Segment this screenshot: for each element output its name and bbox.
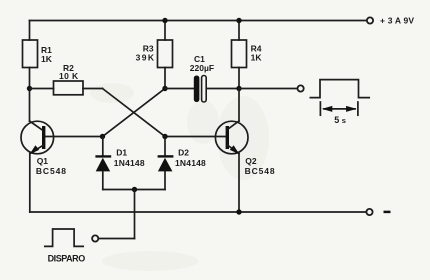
wire R4 bottom lead xyxy=(238,68,240,89)
wire output line xyxy=(239,88,297,90)
svg-text:1K: 1K xyxy=(251,52,263,62)
diode D1 xyxy=(95,137,111,190)
svg-text:1K: 1K xyxy=(41,54,53,64)
dimension tick left xyxy=(319,102,321,115)
diode D2 xyxy=(158,137,174,190)
node junction Q2 base/D2/diagonal xyxy=(162,134,167,139)
wire Q1 base lead xyxy=(45,136,103,138)
wire trigger bus between diode anodes xyxy=(103,189,165,191)
svg-text:5: 5 xyxy=(334,115,339,125)
node junction R4/C1/Q2 collector/output xyxy=(236,86,241,91)
wire R4 top lead xyxy=(238,21,240,41)
label negative terminal xyxy=(384,211,391,214)
terminal output xyxy=(298,85,304,91)
svg-text:Q2: Q2 xyxy=(245,156,257,166)
svg-text:10 K: 10 K xyxy=(59,71,79,81)
svg-text:D1: D1 xyxy=(116,148,127,158)
node junction trigger bus xyxy=(132,187,137,192)
node junction R4 top rail xyxy=(236,18,241,23)
terminal negative supply xyxy=(366,209,372,215)
capacitor C1 xyxy=(194,76,206,103)
wire node to C1 left plate xyxy=(165,88,194,90)
wire R2 left lead xyxy=(30,88,54,90)
wire bottom rail xyxy=(30,211,367,213)
wire R3 top lead xyxy=(164,21,166,41)
dimension double arrow xyxy=(322,106,357,112)
wire trigger vertical xyxy=(134,190,136,239)
output pulse waveform symbol xyxy=(310,80,369,98)
resistor R1 xyxy=(23,40,38,68)
terminal trigger input xyxy=(92,235,98,241)
svg-text:BC548: BC548 xyxy=(36,166,67,176)
node junction R3/C1/diagonal xyxy=(162,86,167,91)
node junction Q2 emitter bottom rail xyxy=(236,209,241,214)
node junction Q1 base/D1/diagonal xyxy=(100,134,105,139)
wire cross-coupling diagonal Q1 base to R3/C1 node xyxy=(103,89,166,137)
wire R1 top lead xyxy=(29,21,31,41)
resistor R4 xyxy=(232,40,247,68)
svg-text:1N4148: 1N4148 xyxy=(175,158,206,168)
svg-text:BC548: BC548 xyxy=(245,166,276,176)
svg-text:Q1: Q1 xyxy=(37,156,49,166)
wire R1 bottom lead to Q1 collector xyxy=(29,68,31,122)
transistor Q1 xyxy=(21,121,54,154)
svg-text:DISPARO: DISPARO xyxy=(48,254,86,264)
resistor R3 xyxy=(158,40,173,68)
svg-text:1N4148: 1N4148 xyxy=(114,158,145,168)
wire R3 bottom lead xyxy=(164,68,166,89)
wire R2 right lead xyxy=(83,88,103,90)
wire C1 right plate to R4 node xyxy=(207,88,240,90)
terminal +3 A 9V supply xyxy=(367,17,373,23)
svg-text:D2: D2 xyxy=(178,148,189,158)
svg-text:+ 3 A 9V: + 3 A 9V xyxy=(380,16,414,26)
svg-text:220µF: 220µF xyxy=(190,63,214,73)
resistor R2 xyxy=(54,81,84,95)
dimension tick right xyxy=(357,102,359,115)
transistor Q2 xyxy=(215,121,248,154)
trigger pulse waveform symbol xyxy=(45,229,83,246)
wire Q2 collector to node xyxy=(238,89,240,122)
node junction R3 top rail xyxy=(162,18,167,23)
wire cross-coupling diagonal R2 to Q2 base xyxy=(103,89,166,137)
wire top supply rail xyxy=(30,20,368,22)
wire Q1 emitter to bottom rail xyxy=(29,154,31,213)
wire Q2 emitter to bottom rail xyxy=(238,154,240,213)
svg-text:39K: 39K xyxy=(136,52,156,62)
svg-text:s: s xyxy=(342,116,346,125)
wire Q2 base lead xyxy=(165,136,226,138)
wire trigger horizontal to terminal xyxy=(98,238,134,240)
node junction R1/R2/Q1 collector xyxy=(27,86,32,91)
